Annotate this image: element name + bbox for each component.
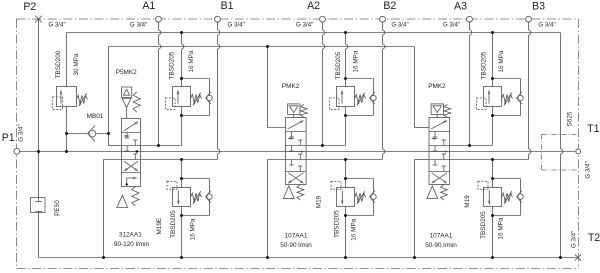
svg-text:30 MPa: 30 MPa — [73, 53, 80, 75]
svg-text:MB01: MB01 — [87, 113, 104, 120]
svg-text:A1: A1 — [142, 0, 155, 12]
svg-text:B3: B3 — [532, 1, 545, 13]
svg-text:50-90 l/min: 50-90 l/min — [280, 242, 312, 249]
svg-text:G 3/4": G 3/4" — [18, 124, 25, 141]
svg-text:TBSD205: TBSD205 — [169, 51, 176, 79]
svg-text:TBSD205: TBSD205 — [335, 51, 342, 79]
svg-text:G 3/4": G 3/4" — [228, 21, 245, 28]
svg-text:16 MPa: 16 MPa — [498, 50, 505, 72]
svg-text:A3: A3 — [454, 1, 467, 13]
svg-text:16 MPa: 16 MPa — [188, 50, 195, 72]
svg-text:TBSD200: TBSD200 — [55, 50, 62, 78]
svg-text:T2: T2 — [588, 232, 600, 244]
svg-text:TBSD205: TBSD205 — [333, 210, 340, 238]
svg-text:B2: B2 — [383, 0, 396, 12]
svg-text:107AA1: 107AA1 — [430, 233, 453, 240]
svg-text:G 3/4": G 3/4" — [130, 21, 147, 28]
svg-text:G 3/4": G 3/4" — [538, 21, 555, 28]
svg-text:A2: A2 — [307, 0, 320, 12]
svg-text:P5MK2: P5MK2 — [116, 69, 137, 76]
svg-text:G 3/4": G 3/4" — [391, 21, 408, 28]
svg-text:TBSD205: TBSD205 — [480, 211, 487, 239]
svg-text:S625: S625 — [567, 111, 574, 126]
svg-text:P1: P1 — [2, 132, 15, 144]
svg-text:B1: B1 — [221, 0, 234, 12]
svg-text:M19: M19 — [464, 195, 471, 208]
svg-text:16 MPa: 16 MPa — [189, 218, 196, 240]
svg-text:G 3/4": G 3/4" — [443, 21, 460, 28]
svg-text:M19E: M19E — [156, 218, 163, 235]
svg-text:50-90 l/min: 50-90 l/min — [425, 242, 457, 249]
svg-text:T1: T1 — [587, 123, 599, 135]
svg-text:TBSD205: TBSD205 — [170, 210, 177, 238]
svg-text:107AA1: 107AA1 — [285, 233, 308, 240]
svg-text:90-120 l/min: 90-120 l/min — [114, 241, 150, 248]
svg-text:16 MPa: 16 MPa — [350, 218, 357, 240]
svg-text:16 MPa: 16 MPa — [498, 217, 505, 239]
svg-text:G 3/4": G 3/4" — [585, 161, 592, 178]
svg-text:M19: M19 — [316, 195, 323, 208]
svg-text:PMK2: PMK2 — [282, 83, 300, 90]
svg-text:P2: P2 — [23, 1, 36, 13]
svg-text:G 3/4": G 3/4" — [570, 231, 577, 248]
svg-text:G 3/4": G 3/4" — [48, 21, 65, 28]
svg-text:G 3/4": G 3/4" — [296, 21, 313, 28]
svg-text:PMK2: PMK2 — [428, 83, 446, 90]
svg-text:TBSD205: TBSD205 — [480, 51, 487, 79]
svg-text:PE50: PE50 — [54, 200, 61, 216]
svg-text:16 MPa: 16 MPa — [353, 50, 360, 72]
svg-text:312AA1: 312AA1 — [119, 231, 142, 238]
